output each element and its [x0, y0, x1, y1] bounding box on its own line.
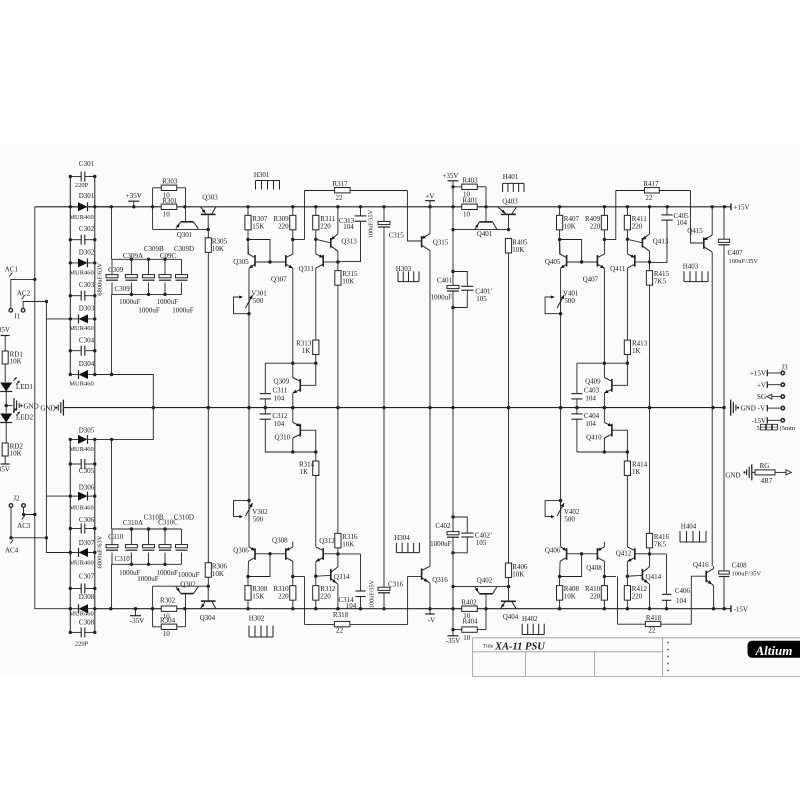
wire: [713, 566, 715, 569]
svg-text:-35V: -35V: [446, 637, 460, 645]
wire: [247, 230, 249, 255]
wire: [452, 308, 454, 408]
svg-text:RG: RG: [760, 462, 770, 470]
svg-text:Q413: Q413: [653, 238, 669, 246]
junction: [336, 260, 339, 263]
resistor R304: [153, 626, 162, 628]
svg-text:220P: 220P: [75, 182, 89, 189]
svg-text:MUR460: MUR460: [69, 560, 94, 567]
resistor RD1: [2, 351, 8, 364]
wire base: [323, 261, 338, 263]
junction: [268, 552, 271, 555]
junction: [69, 238, 72, 241]
junction: [183, 607, 186, 610]
wire emitter to GND: [603, 408, 605, 423]
junction: [603, 406, 606, 409]
node -35V led return: [1, 463, 10, 465]
svg-text:+15V: +15V: [750, 370, 766, 378]
logo Altium: [748, 641, 800, 658]
svg-text:C310A: C310A: [123, 519, 143, 527]
wire output V line: [429, 251, 431, 567]
wire D305 row to GND: [95, 408, 154, 440]
junction: [93, 205, 96, 208]
wire to Rfb leg: [293, 576, 305, 578]
svg-text:Q409: Q409: [585, 378, 601, 386]
junction: [22, 513, 25, 516]
svg-text:C311: C311: [272, 387, 287, 395]
capacitor C307: [70, 588, 81, 590]
transistor Q315: [421, 236, 423, 247]
wire: [5, 392, 7, 406]
potentiometer V301: [248, 290, 250, 314]
node -35V right: [452, 630, 454, 636]
junction: [69, 261, 72, 264]
junction: [626, 238, 629, 241]
wire emitter: [560, 268, 562, 290]
wire emitter to GND: [603, 393, 605, 408]
diode D308: [70, 608, 78, 610]
junction: [507, 406, 510, 409]
svg-text:R303: R303: [162, 177, 178, 185]
junction: [291, 238, 294, 241]
svg-text:220: 220: [320, 593, 331, 601]
svg-text:C310’: C310’: [115, 555, 133, 563]
junction: [428, 205, 431, 208]
wire R317 right leg: [407, 191, 421, 242]
junction: [603, 607, 606, 610]
capacitor C309: [111, 259, 113, 274]
junction: [451, 270, 454, 273]
svg-text:AC3: AC3: [17, 522, 31, 530]
junction: [246, 205, 249, 208]
transistor Q415: [703, 238, 705, 249]
LED LED2: [0, 414, 12, 423]
wire emitter: [248, 268, 250, 290]
wire base: [316, 574, 331, 577]
junction: [93, 238, 96, 241]
wire base pair: [255, 261, 286, 263]
svg-text:1000uF: 1000uF: [431, 293, 453, 301]
wire: [315, 230, 317, 254]
transistor Q407: [596, 255, 598, 267]
junction: [69, 438, 72, 441]
junction: [382, 607, 385, 610]
wire R305 to GND: [207, 252, 209, 407]
junction: [69, 494, 72, 497]
svg-text:Q411: Q411: [610, 265, 626, 273]
svg-text:100uF/35V: 100uF/35V: [368, 209, 375, 238]
junction: [603, 450, 606, 453]
transistor Q410: [611, 424, 613, 437]
capacitor C308: [70, 631, 81, 633]
transistor Q401: [479, 221, 492, 223]
svg-text:10K: 10K: [10, 358, 22, 366]
wire loop lower: [265, 451, 316, 453]
junction: [648, 406, 651, 409]
svg-text:104: 104: [274, 394, 285, 402]
junction: [207, 585, 210, 588]
wire base: [612, 363, 628, 385]
node -V: [429, 609, 431, 614]
svg-text:220P: 220P: [75, 641, 89, 648]
junction: [69, 587, 72, 590]
junction: [69, 607, 72, 610]
junction: [558, 238, 561, 241]
junction: [558, 575, 561, 578]
junction: [603, 575, 606, 578]
svg-text:Q313: Q313: [341, 238, 357, 246]
wire: [603, 363, 605, 377]
junction: [711, 205, 714, 208]
junction: [110, 205, 113, 208]
svg-text:Q416: Q416: [693, 561, 709, 569]
junction: [451, 228, 454, 231]
wire: [508, 578, 510, 587]
junction: [93, 261, 96, 264]
svg-text:D302: D302: [79, 249, 95, 257]
svg-text:220: 220: [278, 593, 289, 601]
junction: [264, 406, 267, 409]
wire to GND: [649, 285, 651, 407]
junction: [268, 260, 271, 263]
junction: [314, 450, 317, 453]
junction: [336, 406, 339, 409]
svg-text:220: 220: [590, 222, 601, 230]
diode D302: [70, 262, 78, 264]
wire R406 to GND: [508, 408, 510, 563]
wire: [603, 438, 605, 452]
wire collector: [649, 251, 651, 262]
svg-text:Q316: Q316: [432, 576, 448, 584]
wire: [559, 230, 561, 255]
svg-text:MUR460: MUR460: [69, 446, 94, 453]
svg-text:C309: C309: [108, 266, 124, 274]
wire AC bus B: [46, 302, 70, 319]
svg-text:MUR460: MUR460: [69, 214, 94, 221]
wire: [292, 363, 294, 377]
svg-text:Q412: Q412: [616, 550, 632, 558]
junction: [336, 552, 339, 555]
svg-text:R304: R304: [160, 616, 176, 624]
junction: [451, 551, 454, 554]
svg-text:C308: C308: [79, 619, 95, 627]
junction: [93, 494, 96, 497]
resistor R310: [290, 586, 296, 601]
wire collector down: [315, 268, 317, 340]
svg-text:1000uF: 1000uF: [119, 298, 141, 306]
wire R418 left leg: [617, 576, 619, 624]
svg-text:C301: C301: [79, 160, 95, 168]
junction: [93, 551, 96, 554]
junction: [247, 499, 250, 502]
svg-text:104: 104: [343, 223, 354, 231]
resistor R413: [624, 340, 630, 355]
wire base: [627, 239, 642, 243]
junction: [152, 406, 155, 409]
junction: [183, 205, 186, 208]
transistor Q416: [705, 571, 707, 582]
junction: [723, 205, 726, 208]
wire collector loop: [248, 240, 270, 263]
resistor R303: [153, 187, 162, 189]
wire emitter to GND: [292, 408, 294, 423]
wire C309 bank top bus: [112, 258, 182, 260]
junction: [147, 258, 150, 261]
junction: [5, 404, 8, 407]
wire D304 row to GND: [95, 375, 154, 408]
transistor Q316: [421, 568, 423, 579]
junction: [130, 527, 133, 530]
junction: [314, 575, 317, 578]
junction: [93, 527, 96, 530]
junction: [648, 552, 651, 555]
wire base: [635, 553, 650, 555]
capacitor C309D: [181, 259, 183, 274]
wire: [4, 456, 6, 464]
junction: [93, 317, 96, 320]
svg-text:22: 22: [648, 627, 656, 635]
wire: [452, 181, 454, 272]
junction: [69, 631, 72, 634]
svg-text:C309D: C309D: [174, 245, 194, 253]
junction: [291, 575, 294, 578]
capacitor C305: [70, 463, 81, 465]
svg-text:H401: H401: [503, 173, 519, 181]
wire rectifier stack right vertical upper: [94, 177, 96, 375]
wire R317 left leg: [304, 191, 306, 240]
junction: [264, 406, 267, 409]
svg-text:+V: +V: [757, 381, 766, 389]
junction: [723, 607, 726, 610]
svg-text:Q312: Q312: [319, 537, 335, 545]
junction: [147, 293, 150, 296]
svg-text:7K5: 7K5: [654, 540, 667, 548]
svg-text:104: 104: [346, 602, 357, 610]
svg-text:500: 500: [564, 516, 575, 524]
resistor R305: [207, 229, 209, 238]
junction: [722, 406, 725, 409]
svg-text:10K: 10K: [512, 570, 524, 578]
junction: [246, 607, 249, 610]
diode D307: [70, 552, 78, 554]
junction: [45, 300, 48, 303]
wire R417 right leg: [691, 191, 704, 244]
svg-text:C315: C315: [389, 231, 405, 239]
capacitor C311: [264, 363, 266, 393]
resistor R315: [337, 262, 339, 271]
svg-text:MUR460: MUR460: [69, 611, 94, 618]
wire R404 right leg: [485, 609, 487, 630]
junction: [109, 607, 112, 610]
junction: [451, 185, 454, 188]
svg-text:7K5: 7K5: [654, 278, 667, 286]
svg-text:10: 10: [163, 211, 171, 219]
svg-text:-V: -V: [758, 405, 765, 413]
svg-text:Q407: Q407: [583, 276, 599, 284]
junction: [712, 607, 715, 610]
junction: [93, 587, 96, 590]
transistor Q405: [566, 255, 568, 267]
wire to GND: [337, 285, 339, 407]
wire emitter to GND: [292, 393, 294, 408]
svg-text:Q403: Q403: [502, 197, 518, 205]
wire pot to GND: [248, 314, 250, 408]
transistor Q409: [611, 379, 613, 392]
capacitor C303: [70, 295, 81, 297]
svg-text:R403: R403: [462, 176, 478, 184]
junction: [359, 205, 362, 208]
svg-text:1000uF: 1000uF: [137, 575, 159, 583]
junction: [603, 238, 606, 241]
wire to Rfb leg: [293, 239, 305, 241]
junction: [33, 278, 36, 281]
junction: [507, 406, 510, 409]
svg-text:LED2: LED2: [16, 414, 34, 422]
svg-text:+V: +V: [425, 192, 434, 200]
junction: [207, 406, 210, 409]
resistor R417: [616, 190, 645, 192]
wire: [4, 336, 6, 352]
wire C309 bank to D304 row: [111, 294, 113, 374]
transistor Q309: [299, 379, 301, 392]
svg-text:GND: GND: [40, 404, 55, 412]
transistor Q408: [596, 548, 598, 560]
capacitor C310C: [164, 529, 166, 545]
junction: [314, 607, 317, 610]
wire AC1: [11, 279, 35, 308]
svg-text:C309’: C309’: [115, 285, 133, 293]
wire loop upper: [577, 362, 628, 364]
junction: [93, 349, 96, 352]
svg-text:Q304: Q304: [200, 614, 216, 622]
wire emitter down: [603, 268, 605, 363]
transistor Q308: [285, 548, 287, 560]
junction: [163, 563, 166, 566]
capacitor C406: [650, 553, 667, 555]
wire -35V bottom rail: [95, 608, 731, 610]
svg-text:22: 22: [645, 194, 653, 202]
svg-text:104: 104: [585, 394, 596, 402]
junction: [580, 260, 583, 263]
wire to Rfb leg: [604, 239, 616, 241]
junction: [33, 513, 36, 516]
wire GND mid rail: [63, 407, 724, 409]
svg-text:500: 500: [564, 297, 575, 305]
junction: [559, 406, 562, 409]
resistor RG: [752, 471, 755, 473]
svg-text:GND: GND: [741, 405, 756, 413]
svg-text:Q404: Q404: [503, 613, 519, 621]
junction: [626, 205, 629, 208]
wire: [4, 364, 6, 382]
svg-text:104: 104: [676, 597, 687, 605]
svg-text:-35V: -35V: [0, 466, 10, 474]
svg-text:220: 220: [278, 222, 289, 230]
svg-text:15K: 15K: [252, 593, 264, 601]
svg-text:D305: D305: [79, 427, 95, 435]
junction: [163, 258, 166, 261]
junction: [336, 607, 339, 610]
svg-text:C401: C401: [437, 276, 453, 284]
svg-text:R402: R402: [461, 598, 477, 606]
transistor Q304: [201, 600, 216, 602]
resistor R318: [305, 623, 335, 625]
svg-text:C406: C406: [675, 587, 691, 595]
junction: [151, 205, 154, 208]
resistor R316: [335, 533, 341, 548]
svg-text:500: 500: [253, 516, 264, 524]
svg-text:C302: C302: [79, 225, 95, 233]
svg-text:6800uF/63V: 6800uF/63V: [97, 535, 104, 568]
junction: [69, 551, 72, 554]
transistor Q404: [501, 600, 516, 602]
junction: [134, 607, 137, 610]
wire C310 bank to D305 row: [111, 439, 113, 529]
wire R304 loop right leg: [185, 594, 187, 627]
svg-text:1000uF: 1000uF: [138, 306, 160, 314]
svg-text:10K: 10K: [342, 278, 354, 286]
junction: [69, 373, 72, 376]
svg-text:R302: R302: [160, 597, 176, 605]
svg-text:1000uF: 1000uF: [157, 298, 179, 306]
wire Q401 loop: [453, 229, 509, 231]
junction: [247, 406, 250, 409]
junction: [9, 536, 12, 539]
svg-text:Q408: Q408: [586, 564, 602, 572]
svg-text:MUR460: MUR460: [69, 270, 94, 277]
svg-text:100uF/35V: 100uF/35V: [729, 258, 759, 265]
resistor R308: [245, 586, 251, 601]
wire AC bus B lower: [46, 319, 70, 496]
svg-text:-15V: -15V: [734, 605, 748, 613]
svg-text:Q301: Q301: [177, 231, 193, 239]
wire R418 right leg: [691, 576, 706, 624]
svg-text:AC2: AC2: [17, 289, 31, 297]
junction: [93, 175, 96, 178]
wire Q304 base: [207, 586, 209, 601]
resistor R311: [315, 207, 317, 216]
svg-text:H404: H404: [681, 522, 697, 530]
wire: [560, 521, 562, 542]
wire collector up: [626, 476, 628, 547]
resistor R403: [453, 186, 462, 188]
svg-text:MUR460: MUR460: [69, 505, 94, 512]
svg-text:100uF/35V: 100uF/35V: [369, 579, 376, 608]
wire base: [300, 363, 316, 385]
transistor Q412: [634, 548, 636, 560]
diode D306: [70, 495, 78, 497]
resistor R301: [161, 204, 177, 209]
wire base: [635, 261, 650, 263]
wire Q403 base: [508, 214, 510, 229]
svg-text:LED1: LED1: [16, 383, 34, 391]
svg-text:H302: H302: [249, 614, 265, 622]
wire base: [300, 430, 316, 452]
svg-text:1K: 1K: [300, 468, 309, 476]
diode D301: [70, 206, 78, 208]
svg-text:AC4: AC4: [5, 547, 19, 555]
capacitor C306: [70, 528, 81, 530]
svg-text:C408: C408: [732, 562, 748, 570]
junction: [69, 349, 72, 352]
dotted separator: [667, 642, 669, 644]
junction: [291, 406, 294, 409]
svg-text:Q309: Q309: [274, 378, 290, 386]
svg-text:10K: 10K: [564, 593, 576, 601]
resistor R405: [505, 238, 511, 253]
svg-text:1000uF: 1000uF: [430, 540, 452, 548]
node +15V: [730, 204, 732, 211]
